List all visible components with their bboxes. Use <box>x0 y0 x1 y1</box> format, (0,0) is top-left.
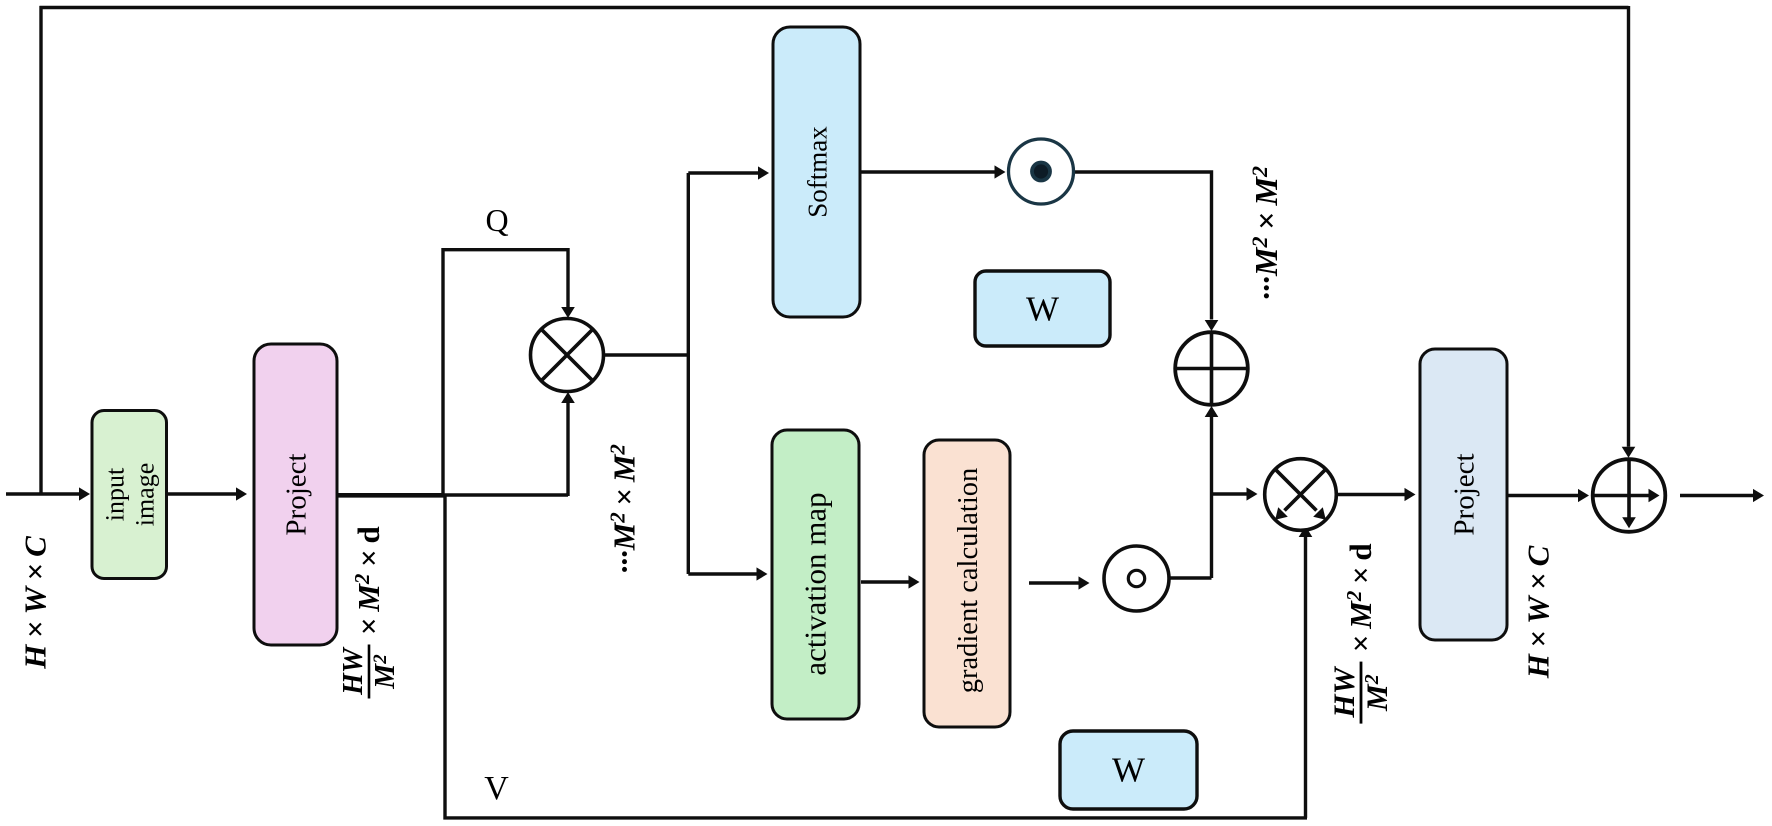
svg-text:gradient calculation: gradient calculation <box>953 468 984 694</box>
svg-text:H × W × C: H × W × C <box>1521 545 1556 679</box>
wire: into Softmax <box>688 171 759 174</box>
node: multiplier 1 (circle with X) <box>531 319 604 392</box>
svg-text:H × W × C: H × W × C <box>18 536 53 670</box>
wire: input image to Project <box>166 492 237 495</box>
wire: activation map to gradient calculation <box>861 580 909 583</box>
node: final adder (circle with arrowed plus) <box>1593 459 1666 532</box>
wire: left vertical drop from residual to main line <box>39 6 42 495</box>
svg-text:Project: Project <box>281 453 313 535</box>
box: W (top) <box>975 271 1110 346</box>
wire: dot node to corner then down into adder1 top <box>1074 172 1212 320</box>
box: input image <box>92 411 167 579</box>
arrowhead: up into adder1 bottom <box>1205 406 1219 417</box>
svg-text:HW: HW <box>338 646 369 696</box>
wire: top residual horizontal <box>40 6 1629 9</box>
box: Softmax <box>773 27 860 317</box>
wire: middle vertical split <box>687 173 690 574</box>
arrowhead: into circle node <box>1079 576 1090 589</box>
arrowhead: into Softmax <box>758 166 769 179</box>
svg-text:W: W <box>1026 290 1059 329</box>
arrowhead: up into multiplier2 bottom (V) <box>1299 526 1313 537</box>
box: gradient calculation <box>924 440 1010 727</box>
arrowhead: into right Project <box>1405 488 1416 501</box>
wire: vertical up into multiplier 1 bottom <box>566 401 569 496</box>
wire: Project output thick segment <box>337 493 444 498</box>
wire: Q loop <box>443 250 568 495</box>
wire: main input line <box>6 492 80 495</box>
arrowhead: into gradient calculation <box>909 575 920 588</box>
wire: right vertical drop from residual to final adder <box>1627 6 1630 447</box>
box: Project (left) <box>254 344 337 645</box>
node: multiplier 2 (circle with crossed arrows) <box>1265 459 1337 531</box>
box: Project (right) <box>1420 349 1507 640</box>
box: W (bottom) <box>1060 731 1197 809</box>
arrowhead: final output <box>1753 489 1764 502</box>
wire: Softmax to dot-product node <box>860 170 995 173</box>
svg-text:image: image <box>131 463 160 527</box>
node: hadamard node (circle with small circle) <box>1104 546 1169 611</box>
svg-text:HW: HW <box>1328 665 1361 718</box>
svg-text:Softmax: Softmax <box>803 126 833 218</box>
svg-text:Q: Q <box>485 202 508 238</box>
wire: junction to Q/V column over to multiplier column <box>441 493 568 496</box>
arrowhead: up into multiplier1 bottom <box>561 392 575 403</box>
svg-text:···M2 × M2: ···M2 × M2 <box>606 444 642 574</box>
svg-text:···M2 × M2: ···M2 × M2 <box>1247 166 1284 300</box>
svg-text:W: W <box>1112 751 1145 790</box>
arrowhead: into activation map <box>757 567 768 580</box>
node: adder 1 (circle with plus) <box>1175 332 1248 405</box>
wire: junction branch into multiplier 2 <box>1212 492 1248 495</box>
svg-text:V: V <box>484 770 509 807</box>
wire: gradient calculation to circle node <box>1029 581 1079 584</box>
wire: multiplier2 to right Project <box>1337 493 1405 496</box>
wire: circle node out to corner and up into adder1 bottom <box>1169 417 1212 578</box>
wire: final output <box>1680 494 1753 497</box>
box: activation map <box>772 430 859 719</box>
svg-text:Project: Project <box>1449 453 1481 535</box>
arrowhead: into dot-product node <box>995 165 1006 178</box>
label: ...M2 x M2 (right) <box>1247 166 1284 300</box>
arrowhead: down into adder1 top <box>1205 320 1219 331</box>
label: H x W x C (right) <box>1521 545 1556 679</box>
arrowhead: into Project <box>236 487 247 500</box>
wire: V loop bottom <box>443 494 1307 818</box>
arrowhead: down into final adder top <box>1622 447 1636 458</box>
wire: multiplier1 output to middle vertical <box>604 353 691 356</box>
arrowhead: into input image <box>79 487 90 500</box>
label: HW/M2 x M2 x d (left) <box>338 526 401 698</box>
svg-text:input: input <box>101 467 130 521</box>
label: HW/M2 x M2 x d (right) <box>1328 543 1394 723</box>
wire: into activation map <box>688 572 757 575</box>
arrowhead: into multiplier2 left <box>1247 487 1258 500</box>
svg-text:activation map: activation map <box>798 492 833 675</box>
label: H x W x C (left) <box>18 536 53 670</box>
arrowhead: into final adder left <box>1578 489 1589 502</box>
node: element-wise product (circle with dot) <box>1009 139 1074 204</box>
arrowhead: down into multiplier1 top (Q) <box>561 307 575 318</box>
wire: right Project to final adder <box>1507 494 1579 497</box>
label: ...M2 x M2 (middle) <box>606 444 642 574</box>
